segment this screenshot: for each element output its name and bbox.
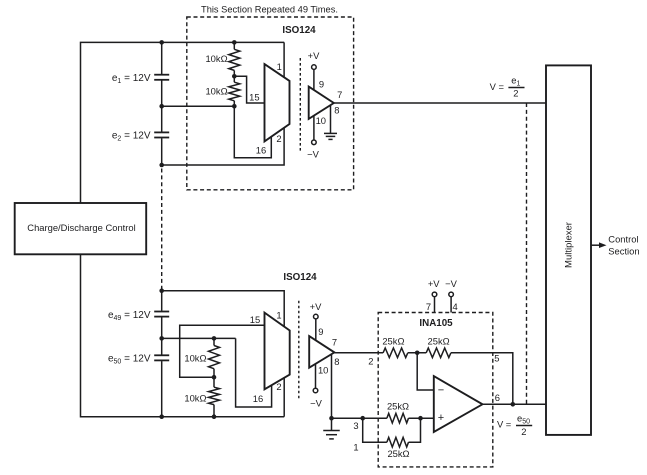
svg-text:ISO124: ISO124 bbox=[282, 25, 316, 36]
svg-text:6: 6 bbox=[495, 392, 500, 403]
svg-text:INA105: INA105 bbox=[419, 318, 453, 329]
svg-text:1: 1 bbox=[277, 61, 282, 72]
svg-text:2: 2 bbox=[521, 426, 526, 437]
svg-text:This Section Repeated 49 Times: This Section Repeated 49 Times. bbox=[201, 5, 338, 15]
svg-text:10kΩ: 10kΩ bbox=[184, 352, 206, 363]
svg-text:10: 10 bbox=[318, 365, 328, 376]
svg-text:2: 2 bbox=[513, 88, 518, 99]
svg-text:1: 1 bbox=[276, 310, 281, 321]
svg-text:1: 1 bbox=[353, 441, 358, 452]
svg-text:10: 10 bbox=[316, 115, 326, 126]
svg-text:16: 16 bbox=[256, 144, 266, 155]
svg-text:16: 16 bbox=[253, 393, 263, 404]
svg-text:7: 7 bbox=[426, 301, 431, 312]
svg-text:10kΩ: 10kΩ bbox=[205, 86, 227, 97]
svg-text:7: 7 bbox=[337, 89, 342, 100]
svg-text:25kΩ: 25kΩ bbox=[387, 401, 409, 412]
svg-text:+V: +V bbox=[308, 50, 320, 61]
svg-text:25kΩ: 25kΩ bbox=[428, 335, 450, 346]
svg-text:V =: V = bbox=[497, 418, 512, 429]
svg-text:9: 9 bbox=[318, 326, 323, 337]
svg-text:10kΩ: 10kΩ bbox=[184, 392, 206, 403]
svg-text:−V: −V bbox=[310, 398, 322, 409]
svg-text:7: 7 bbox=[332, 337, 337, 348]
svg-text:2: 2 bbox=[368, 356, 373, 367]
svg-text:5: 5 bbox=[494, 353, 499, 364]
svg-text:Control: Control bbox=[608, 233, 638, 244]
svg-text:25kΩ: 25kΩ bbox=[382, 335, 404, 346]
svg-text:−V: −V bbox=[307, 149, 319, 160]
svg-text:V =: V = bbox=[490, 81, 505, 92]
svg-text:−V: −V bbox=[445, 278, 457, 289]
svg-text:10kΩ: 10kΩ bbox=[205, 53, 227, 64]
svg-text:2: 2 bbox=[276, 133, 281, 144]
svg-text:4: 4 bbox=[452, 301, 457, 312]
svg-text:15: 15 bbox=[249, 91, 259, 102]
svg-text:+V: +V bbox=[310, 301, 322, 312]
svg-text:+V: +V bbox=[428, 278, 440, 289]
svg-text:2: 2 bbox=[276, 381, 281, 392]
svg-text:15: 15 bbox=[250, 314, 260, 325]
svg-text:9: 9 bbox=[319, 79, 324, 90]
svg-text:3: 3 bbox=[353, 420, 358, 431]
svg-text:25kΩ: 25kΩ bbox=[387, 448, 409, 459]
svg-text:−: − bbox=[438, 385, 444, 397]
svg-text:Multiplexer: Multiplexer bbox=[563, 222, 574, 268]
svg-text:Section: Section bbox=[608, 245, 639, 256]
svg-text:Charge/Discharge Control: Charge/Discharge Control bbox=[27, 222, 135, 233]
svg-text:8: 8 bbox=[334, 356, 339, 367]
svg-text:ISO124: ISO124 bbox=[283, 272, 317, 283]
svg-text:8: 8 bbox=[334, 105, 339, 116]
svg-text:+: + bbox=[438, 412, 444, 424]
